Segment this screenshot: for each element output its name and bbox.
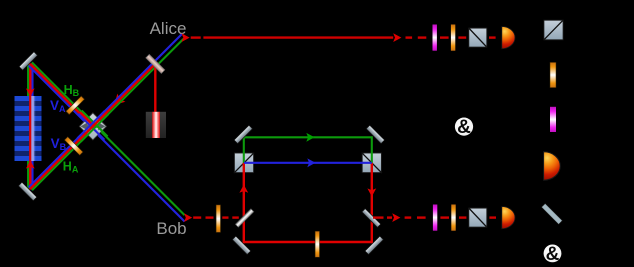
pump laser <box>146 112 166 138</box>
arrow: pump into crystal (down) <box>26 88 35 96</box>
arrow: Alice output <box>182 33 190 42</box>
mirror bottom-left of source <box>18 182 36 200</box>
arrow: pump into crystal (up) <box>26 160 35 168</box>
arrow: green direction <box>306 133 314 142</box>
arrow: pump direction into loop (down-left) <box>110 94 125 109</box>
nonlinear crystal (striped) <box>15 96 42 161</box>
mirror bottom-right of loop <box>365 236 383 254</box>
output pickoff mirror right <box>362 209 381 228</box>
wire: right vertical <box>371 163 373 243</box>
svg-text:&: & <box>457 117 471 138</box>
wire: vertical source beam green <box>27 63 29 191</box>
BS cube right of loop <box>362 153 382 174</box>
beamsplitter diamond (PBS of Sagnac source) <box>79 113 106 140</box>
wire: Bob dashes to analysis <box>405 216 496 218</box>
wire: Alice dashes to analysis <box>406 36 496 38</box>
Alice detector <box>502 26 515 48</box>
Bob interferometer red path: left vertical <box>243 163 245 243</box>
arrow: down on right vertical <box>367 188 376 196</box>
wire: bottom horizontal <box>243 241 373 243</box>
wire: beams crossing diamond (redrawn on top) <box>77 111 108 142</box>
svg-text:Alice: Alice <box>150 19 187 38</box>
Bob analysis: QWP orange <box>451 205 455 231</box>
wire: diagonal bundle TL-mirror to Bob, blue <box>29 66 185 222</box>
dichroic mirror near Alice <box>146 54 165 73</box>
wire: Alice dashed start <box>191 36 201 38</box>
wire: diagonal red TL-mirror to beamsplitter <box>30 64 95 129</box>
white injection mirror on Bob line <box>235 209 254 228</box>
wire: green top path of interferometer <box>244 137 372 163</box>
wire: vertical pump red through crystal <box>29 63 31 189</box>
mirror top-left of loop <box>234 125 252 143</box>
Bob analysis: PBS cube <box>469 208 487 227</box>
legend: BS cube top right <box>544 20 563 40</box>
Alice analysis: QWP orange <box>451 25 455 51</box>
svg-text:&: & <box>546 244 560 265</box>
legend: detector <box>544 152 561 180</box>
Bob detector <box>502 207 515 229</box>
wire: diagonal bundle BL-mirror to Alice, green <box>32 39 184 191</box>
waveplate on Bob input <box>216 205 220 233</box>
wire: Alice long solid line <box>203 36 393 38</box>
waveplate HWP upper source arm <box>66 96 85 115</box>
wire: diagonal bundle TL-mirror to Bob, green <box>32 62 185 215</box>
BS cube left of loop <box>234 153 254 174</box>
wire: pump vertical from laser to dichroic <box>154 62 156 113</box>
legend: QWP orange <box>550 62 556 87</box>
legend: mirror <box>541 203 562 224</box>
legend: coincidence badge <box>544 244 562 265</box>
mirror top-left of source <box>19 52 37 70</box>
waveplate bottom of loop <box>315 231 319 257</box>
wire: diagonal red pump BL-mirror to dichroic <box>30 64 155 189</box>
wire: Bob dashed input line <box>193 216 239 218</box>
wire: blue beam lavender inside crystal <box>31 96 34 161</box>
arrow: Bob output arrow <box>392 213 400 222</box>
coincidence badge middle <box>455 117 473 138</box>
wire: vertical source beam blue <box>31 63 33 191</box>
arrow: Bob output from source <box>184 213 192 222</box>
Alice analysis: PBS cube <box>469 28 487 47</box>
arrow: up on left vertical <box>239 185 248 193</box>
Alice analysis: HWP magenta <box>433 25 437 51</box>
wire: blue direct path <box>244 162 372 164</box>
legend: HWP magenta <box>550 107 556 132</box>
Bob analysis: HWP magenta <box>433 205 437 231</box>
mirror top-right of loop <box>366 125 384 143</box>
wire: diagonal bundle BL-mirror to Alice, blue <box>29 34 183 188</box>
arrow: Alice mid arrow <box>393 33 401 42</box>
wire: Bob output dash <box>373 216 384 218</box>
arrow: blue direction <box>307 158 315 167</box>
mirror bottom-left of loop <box>232 236 250 254</box>
waveplate HWP lower source arm <box>64 137 83 156</box>
svg-text:Bob: Bob <box>156 219 186 238</box>
